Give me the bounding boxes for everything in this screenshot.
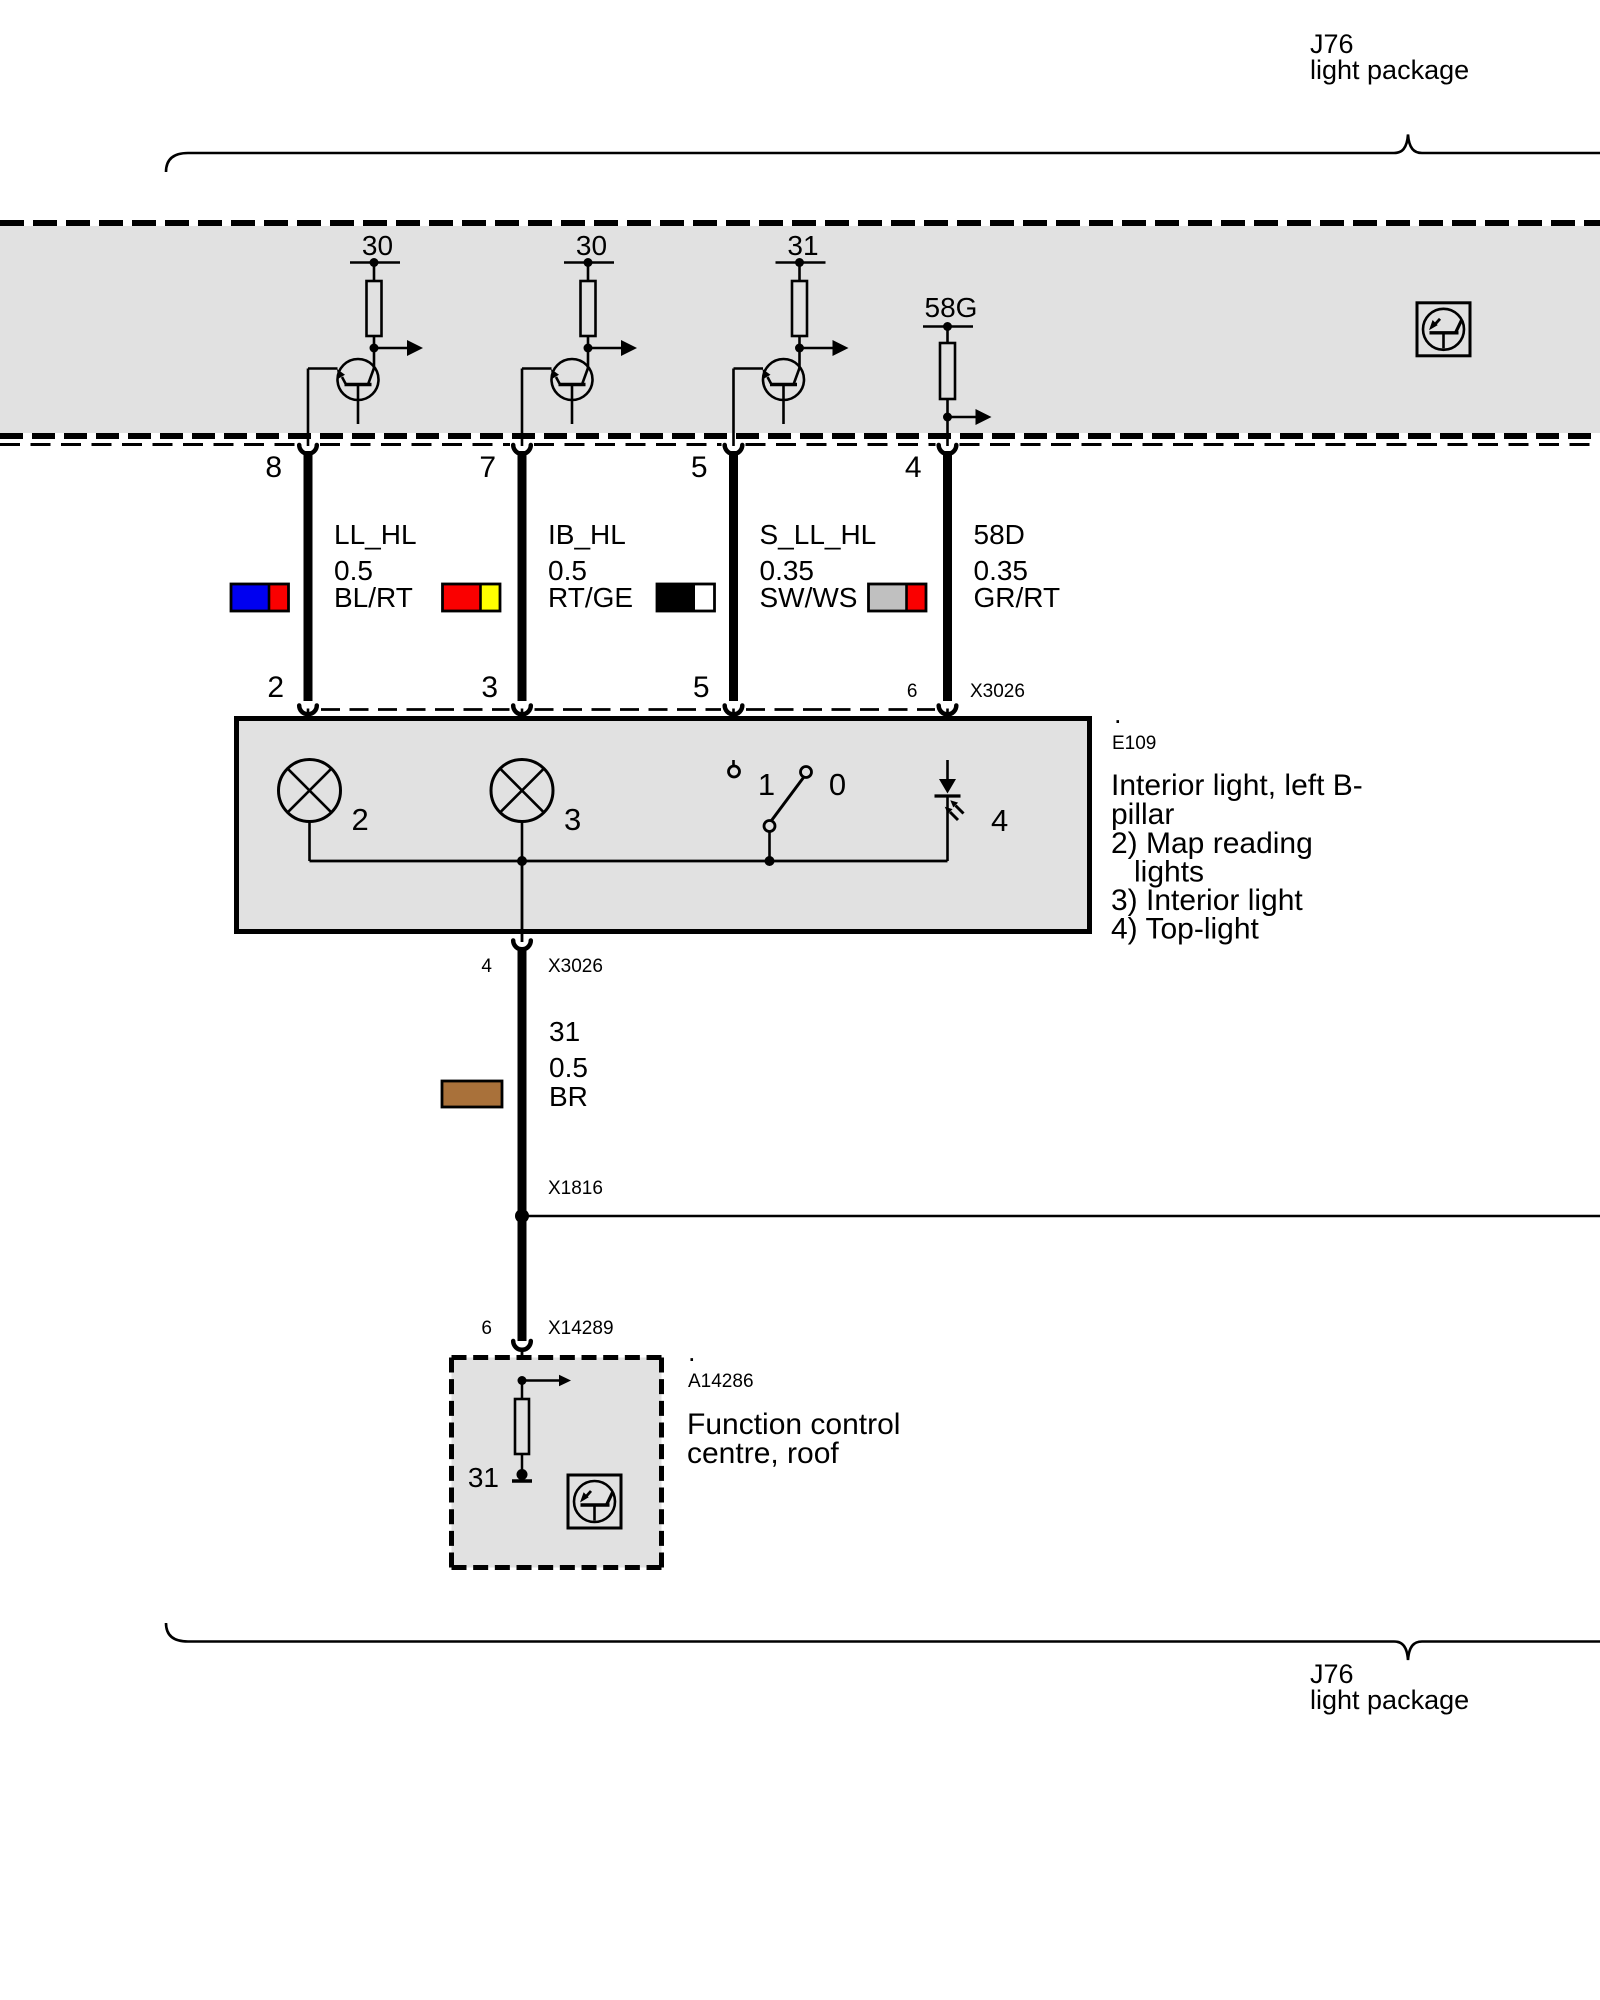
wire into A14286 (521, 1348, 524, 1381)
transistor output stage (552, 359, 593, 400)
svg-text:31: 31 (468, 1462, 499, 1493)
wire resistor to junction (587, 336, 590, 349)
signal arrow out 58G (948, 416, 976, 419)
wire into E109 from cup (521, 709, 524, 761)
control unit symbol (output stage icon, A14286) (568, 1475, 621, 1528)
node: input junction dot (518, 1376, 527, 1385)
node: terminal tap dot (584, 258, 593, 267)
node: 58G junction dot (943, 413, 952, 422)
connector plane dashed line (0, 443, 296, 446)
svg-text:3: 3 (564, 802, 581, 837)
band border dashed top (0, 220, 1600, 226)
node: terminal tap dot (370, 258, 379, 267)
signal arrow out (A14286) (522, 1379, 559, 1382)
svg-text:4: 4 (905, 451, 922, 484)
svg-text:1: 1 (758, 767, 775, 802)
node: collector junction dot (370, 344, 379, 353)
svg-text:4: 4 (991, 803, 1008, 838)
connector cup, control unit pin 7 (513, 445, 531, 454)
svg-text:S_LL_HL: S_LL_HL (760, 519, 877, 550)
svg-text:30: 30 (576, 230, 607, 261)
transistor output stage (763, 359, 804, 400)
node X1816 junction dot (515, 1209, 529, 1223)
wire terminal to resistor (373, 263, 376, 283)
svg-text:6: 6 (481, 1318, 492, 1339)
wire (thick) ground lead 31 (518, 947, 527, 1341)
terminal bus bar 31 (776, 261, 826, 264)
module A14286 Function control centre roof (dashed box) (452, 1358, 662, 1568)
connector cup X14289 (513, 1341, 531, 1350)
connector cup, control unit pin 8 (299, 445, 317, 454)
svg-text:.: . (1114, 699, 1122, 729)
connector cup X3026 at E109 (wire 4) (939, 706, 957, 715)
svg-text:.: . (688, 1337, 696, 1367)
wire resistor to junction (946, 399, 949, 418)
wire junction to transistor collector (373, 348, 376, 368)
svg-text:4: 4 (481, 956, 492, 977)
wire transistor emitter to pin (308, 367, 338, 370)
svg-text:A14286: A14286 (688, 1371, 754, 1392)
svg-text:58D: 58D (974, 519, 1025, 550)
connector plane dashed line at E109 (321, 708, 510, 711)
svg-text:8: 8 (265, 451, 282, 484)
lamp 2 (map reading light) (308, 759, 311, 761)
wire 58G to resistor (946, 327, 949, 345)
signal arrow out (588, 347, 621, 350)
signal arrow out (374, 347, 407, 350)
connector cup X3026 at E109 (wire 8) (299, 706, 317, 715)
svg-text:E109: E109 (1112, 733, 1156, 754)
wire colour box BL/RT (blue/red) (231, 584, 289, 611)
switch (interior light switch 1/0) (732, 760, 735, 765)
resistor (A14286 internal) (515, 1399, 529, 1454)
terminal bus bar 30 (350, 261, 400, 264)
wire transistor emitter to pin (734, 367, 764, 370)
svg-text:2: 2 (352, 802, 369, 837)
svg-text:5: 5 (691, 451, 708, 484)
terminal bus bar 58G (923, 325, 973, 328)
internal bus wire in E109 (310, 860, 948, 863)
svg-text:SW/WS: SW/WS (760, 582, 858, 613)
wire into E109 from cup (307, 709, 310, 761)
node: collector junction dot (795, 344, 804, 353)
signal arrow out (800, 347, 833, 350)
wire transistor emitter to pin (522, 367, 552, 370)
module E109 Interior light box (237, 719, 1090, 932)
terminal bus bar 30 (564, 261, 614, 264)
svg-text:X3026: X3026 (970, 681, 1025, 702)
LED light arrows (956, 806, 964, 814)
resistor (58G dimmer) (940, 343, 955, 399)
wire colour box SW/WS (black/white) (657, 584, 715, 611)
svg-text:30: 30 (362, 230, 393, 261)
connector cup X3026 pin 4 (E109 output) (513, 941, 531, 950)
band border dashed bottom (0, 433, 1600, 439)
resistor (load) (367, 281, 382, 336)
wire junction to transistor collector (587, 348, 590, 368)
wire colour box BR (brown) (442, 1081, 502, 1107)
wire E109 output (pin 4) down (521, 861, 524, 942)
connector cup, control unit pin 5 (725, 445, 743, 454)
brace (top, J76 light package span) (166, 135, 1600, 173)
control unit band (body computer) (0, 226, 1600, 433)
transistor output stage (338, 359, 379, 400)
svg-text:GR/RT: GR/RT (974, 582, 1061, 613)
svg-text:BL/RT: BL/RT (334, 582, 413, 613)
svg-text:0: 0 (829, 767, 846, 802)
wire (thick) pin 4 down to X3026 (943, 451, 952, 701)
svg-text:31: 31 (787, 230, 818, 261)
svg-text:X3026: X3026 (548, 956, 603, 977)
svg-text:3: 3 (481, 671, 498, 704)
wire (thick) pin 5 down to X3026 (729, 451, 738, 701)
svg-text:X14289: X14289 (548, 1318, 614, 1339)
wire (thick) pin 8 down to X3026 (304, 451, 313, 701)
node: bus junction dot (lamp3/output) (517, 856, 527, 866)
wire into E109 from cup (732, 709, 735, 761)
wire lamp3 to internal bus (521, 823, 524, 862)
svg-text:light package: light package (1310, 55, 1469, 85)
svg-text:2: 2 (267, 671, 284, 704)
wire X1816 branch to right (522, 1215, 1600, 1218)
wire terminal to resistor (587, 263, 590, 283)
wire into E109 from cup (946, 709, 949, 761)
control unit symbol (output stage icon, in band) (1417, 303, 1470, 356)
wire 58G junction to pin 4 (946, 417, 949, 446)
wire junction to resistor (521, 1381, 524, 1401)
wire junction to transistor collector (798, 348, 801, 368)
node: switch to bus dot (765, 856, 775, 866)
resistor (load) (581, 281, 596, 336)
wire lamp2 to internal bus (308, 823, 311, 862)
node: collector junction dot (584, 344, 593, 353)
svg-text:BR: BR (549, 1081, 588, 1112)
LED 4 (top-light) (946, 760, 949, 780)
svg-text:31: 31 (549, 1016, 580, 1047)
wire resistor to junction (373, 336, 376, 349)
svg-text:IB_HL: IB_HL (548, 519, 626, 550)
wire colour box RT/GE (red/yellow) (443, 584, 501, 611)
wire resistor to ground (521, 1454, 524, 1476)
svg-text:5: 5 (693, 671, 710, 704)
svg-text:0.5: 0.5 (549, 1052, 588, 1083)
wire (thick) pin 7 down to X3026 (518, 451, 527, 701)
wire resistor to junction (798, 336, 801, 349)
ground 31 symbol (517, 1469, 528, 1480)
svg-text:centre, roof: centre, roof (687, 1437, 839, 1470)
node: terminal tap dot (795, 258, 804, 267)
wire colour box GR/RT (grey/red) (869, 584, 927, 611)
svg-text:X1816: X1816 (548, 1178, 603, 1199)
wire terminal to resistor (798, 263, 801, 283)
connector cup X3026 at E109 (wire 7) (513, 706, 531, 715)
svg-text:4) Top-light: 4) Top-light (1111, 913, 1260, 946)
resistor (load) (792, 281, 807, 336)
connector cup X3026 at E109 (wire 5) (725, 706, 743, 715)
svg-text:RT/GE: RT/GE (548, 582, 633, 613)
svg-text:7: 7 (479, 451, 496, 484)
svg-text:LL_HL: LL_HL (334, 519, 417, 550)
brace (bottom, J76 light package span) (166, 1623, 1600, 1660)
svg-text:light package: light package (1310, 1685, 1469, 1715)
svg-text:58G: 58G (925, 292, 978, 323)
node: 58G tap dot (943, 322, 952, 331)
svg-text:6: 6 (907, 681, 918, 702)
connector cup, control unit pin 4 (939, 445, 957, 454)
lamp 3 (interior light) (491, 760, 553, 822)
